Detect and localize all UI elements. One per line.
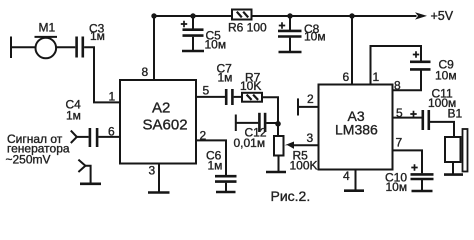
junction node R7/C12/R5 — [275, 121, 281, 127]
svg-text:1: 1 — [373, 70, 380, 84]
potentiometer R5 — [274, 136, 284, 156]
capacitor C6 — [215, 176, 237, 191]
ground under C10 — [412, 190, 433, 193]
label C12 value — [234, 126, 267, 150]
svg-text:1: 1 — [109, 90, 116, 104]
svg-text:~250mV: ~250mV — [6, 153, 51, 167]
svg-text:3: 3 — [307, 131, 314, 145]
wire A2 pin 3 to ground — [158, 164, 160, 193]
svg-text:2: 2 — [307, 92, 314, 106]
R5 wiper arrow from A3 pin 3 — [285, 142, 319, 149]
wire C3 to A2 pin 1 — [84, 47, 120, 102]
svg-text:M1: M1 — [39, 21, 56, 35]
svg-text:5: 5 — [203, 84, 210, 98]
A3 pin 2 terminal bar — [297, 98, 299, 115]
label C6 value — [206, 149, 222, 173]
wire top rail right to +5V arrow — [252, 15, 417, 17]
svg-text:10K: 10K — [240, 79, 261, 93]
svg-text:10м: 10м — [304, 30, 326, 44]
ground under C8 — [279, 51, 302, 54]
svg-text:A2: A2 — [152, 100, 170, 117]
+5V arrowhead — [415, 12, 427, 19]
label C9 value — [435, 58, 457, 83]
wire C12 to junction — [266, 122, 278, 124]
wire fork to ground — [85, 166, 90, 184]
svg-text:3: 3 — [149, 164, 156, 178]
svg-text:10м: 10м — [205, 38, 227, 52]
label C4 value — [66, 98, 82, 123]
svg-text:8: 8 — [142, 65, 149, 79]
ground under A3 pin 4 — [344, 189, 364, 192]
capacitor C8 — [278, 16, 302, 52]
ground under A2 pin 3 — [148, 191, 170, 194]
capacitor C3 — [77, 37, 83, 58]
junction node rail / C8 — [287, 13, 292, 18]
wire A3 pin 6 riser — [351, 16, 353, 85]
wire terminal to M1 — [11, 46, 36, 48]
IC A2 SA602 — [120, 80, 196, 164]
capacitor C4 — [90, 128, 97, 147]
svg-text:LM386: LM386 — [335, 122, 378, 138]
svg-text:100K: 100K — [290, 159, 318, 173]
svg-text:B1: B1 — [448, 107, 463, 121]
wire R5 to ground — [278, 156, 280, 172]
label C7 value — [217, 62, 233, 85]
wire top rail left (node +5V) — [154, 15, 232, 17]
resistor R7 — [242, 93, 262, 102]
svg-text:1м: 1м — [90, 29, 105, 43]
ground under C5 — [182, 50, 204, 53]
svg-text:R6 100: R6 100 — [228, 21, 267, 35]
IC A3 LM386 — [319, 85, 393, 170]
capacitor C10 — [411, 164, 434, 190]
wire A3 pin 4 to ground — [355, 170, 357, 191]
svg-text:7: 7 — [396, 136, 403, 150]
label C8 value — [304, 22, 326, 44]
connector fork generator input — [71, 131, 77, 143]
junction node rail / A3 pin 6 — [349, 13, 354, 18]
svg-text:1м: 1м — [208, 159, 223, 173]
svg-text:10м: 10м — [435, 68, 457, 82]
label C5 value — [205, 28, 227, 51]
label signal source text — [6, 132, 70, 167]
svg-text:1м: 1м — [66, 109, 81, 123]
wire B1 to ground — [452, 162, 454, 174]
label R5 value — [290, 148, 318, 172]
capacitor C9 — [410, 51, 431, 69]
wire M1 to C3 — [56, 46, 75, 48]
junction node rail / C5 — [190, 13, 195, 18]
wire A3 pin 1 riser to C9 — [371, 46, 422, 85]
wire C11 to B1 — [430, 122, 454, 137]
ground under B1 — [444, 173, 463, 176]
label R7 value — [240, 71, 261, 94]
ground under R5 — [266, 171, 286, 174]
svg-text:Рис.2.: Рис.2. — [271, 188, 311, 204]
wire A2 pin 5 to C7 — [196, 96, 225, 98]
svg-text:SA602: SA602 — [143, 117, 188, 134]
resistor R6 — [232, 10, 252, 20]
label C11 value — [428, 87, 456, 110]
wire C7 to R7 — [234, 96, 242, 98]
wire fork to C4 — [77, 136, 89, 138]
svg-text:0,01м: 0,01м — [234, 136, 266, 150]
label C3 value — [89, 22, 105, 43]
wire C4 to A2 pin 6 — [98, 136, 120, 138]
ground under C6 — [216, 191, 236, 194]
ground under input fork — [80, 183, 101, 186]
svg-text:+5V: +5V — [431, 9, 454, 23]
wire A3 pin 5 to C11 — [393, 117, 422, 119]
wire A2 pin 2 to C6 — [196, 140, 226, 175]
capacitor C11 — [410, 110, 429, 130]
svg-text:10м: 10м — [386, 180, 408, 194]
wire terminal to A3 pin 2 — [298, 106, 319, 108]
svg-text:1м: 1м — [218, 71, 233, 85]
capacitor C12 — [259, 113, 265, 132]
svg-text:8: 8 — [394, 78, 401, 92]
capacitor C5 — [181, 16, 204, 51]
svg-text:6: 6 — [343, 70, 350, 84]
wire terminal to C12 — [236, 122, 258, 124]
connector fork ground input — [78, 160, 85, 172]
capacitor C12 terminal bar — [235, 115, 237, 132]
wire C9 to A3 pin 8 — [393, 71, 422, 91]
microphone M1 — [35, 37, 58, 58]
svg-text:4: 4 — [343, 169, 350, 183]
junction node rail / A2 pin 8 — [151, 13, 156, 18]
wire A2 pin 8 riser — [153, 16, 155, 80]
speaker B1 — [445, 129, 468, 172]
label C10 value — [385, 171, 407, 195]
capacitor C7 — [226, 89, 232, 105]
wire R7 to junction and down to R5 — [262, 97, 278, 136]
microphone M1 left terminal bar — [10, 37, 12, 59]
wire A3 pin 7 to C10 — [393, 150, 423, 173]
